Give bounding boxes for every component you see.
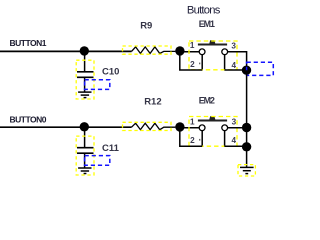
- right contact circle: [222, 49, 228, 55]
- pin name tick EM1: [199, 63, 200, 65]
- pin number 2 (EM2): [190, 136, 195, 145]
- highlight box EM1 (yellow dashed): [189, 41, 237, 70]
- label C11: [102, 143, 120, 154]
- svg-text:BUTTON0: BUTTON0: [10, 115, 47, 125]
- wire EM1 pin3 to right column: [228, 52, 247, 70]
- push button EM1: [198, 40, 228, 70]
- wire EM2 pin4 to right column: [224, 145, 246, 147]
- label EM2: [199, 96, 215, 106]
- wire C11 top lead: [84, 127, 86, 147]
- resistor R9 zigzag: [132, 47, 176, 54]
- svg-text:1: 1: [190, 41, 195, 50]
- svg-text:EM2: EM2: [199, 96, 215, 106]
- label R12: [144, 97, 161, 108]
- node junction dot EM2 pin4 / column: [242, 142, 251, 151]
- pin number 4 (EM2): [232, 136, 237, 145]
- svg-text:3: 3: [232, 118, 237, 127]
- wire EM2 pin2 return (dot-down-right): [180, 127, 202, 146]
- ground GND under C11: [78, 168, 91, 174]
- svg-text:C10: C10: [102, 67, 119, 78]
- node junction dot R9/EM1 pin1: [175, 46, 184, 55]
- pin number 2 (EM1): [190, 60, 195, 69]
- actuator bar: [198, 44, 227, 46]
- node junction dot EM1 pins3-4: [242, 66, 251, 75]
- highlight box GND bottom right (yellow dashed): [238, 165, 255, 176]
- capacitor C11: [77, 148, 94, 154]
- svg-text:C11: C11: [102, 143, 120, 154]
- svg-text:EM1: EM1: [199, 19, 215, 29]
- wire dot to EM2 pin 1: [180, 127, 200, 129]
- actuator bar: [198, 120, 227, 122]
- ground GND under C10: [78, 92, 91, 98]
- pin2 stub under left circle: [201, 55, 203, 71]
- wire C10 bottom lead to ground: [84, 78, 86, 92]
- node junction dot R12/EM2 pin1: [175, 122, 184, 131]
- push button EM2: [198, 116, 228, 147]
- wire EM1 pin2 return (dot-down-right): [180, 51, 202, 70]
- svg-text:2: 2: [190, 136, 195, 145]
- wire BUTTON0 net: left segment x0 to R12: [0, 126, 132, 128]
- highlight box C11+GND (yellow dashed): [76, 136, 94, 175]
- wire C11 bottom lead to ground: [84, 154, 86, 168]
- svg-text:R12: R12: [144, 97, 161, 108]
- wire EM2 pin3 to right column: [228, 127, 247, 129]
- ground GND bottom right: [240, 167, 254, 173]
- svg-text:BUTTON1: BUTTON1: [10, 38, 47, 48]
- selection box right of C11 (blue dashed): [85, 156, 110, 166]
- left contact circle: [199, 49, 205, 55]
- pin number 3 (EM1): [231, 41, 236, 50]
- wire BUTTON1 net: left segment x0 to R9: [0, 50, 132, 52]
- highlight box C10+GND (yellow dashed): [76, 60, 94, 99]
- node junction dot EM2 pin3 / column: [242, 123, 251, 132]
- svg-text:4: 4: [232, 136, 237, 145]
- wire right column to ground: [246, 128, 248, 167]
- svg-text:1: 1: [190, 117, 195, 126]
- right contact circle: [222, 125, 228, 131]
- label C10: [102, 67, 119, 78]
- svg-text:R9: R9: [140, 20, 152, 31]
- highlight box R12 (yellow dashed): [123, 122, 172, 130]
- wire C10 top lead: [84, 51, 86, 71]
- left contact circle: [199, 125, 205, 131]
- svg-text:Buttons: Buttons: [187, 4, 221, 16]
- pin4 stub under right circle: [224, 131, 226, 147]
- node junction dot BUTTON0/C11: [80, 122, 89, 131]
- actuator bump: [209, 40, 215, 44]
- selection box right of EM1 (blue dashed): [247, 62, 274, 75]
- pin number 4 (EM1): [232, 61, 237, 70]
- net label BUTTON0: [10, 115, 47, 125]
- pin number 1 (EM2): [190, 117, 195, 126]
- title Buttons: [187, 4, 221, 16]
- node junction dot BUTTON1/C10: [80, 46, 89, 55]
- actuator bump: [209, 116, 215, 120]
- svg-text:2: 2: [190, 60, 195, 69]
- label EM1: [199, 19, 215, 29]
- wire right column EM1 to EM2: [246, 70, 248, 127]
- pin number 1 (EM1): [190, 41, 195, 50]
- capacitor C10: [77, 72, 94, 78]
- resistor R12 zigzag: [132, 123, 176, 130]
- highlight box EM2 (yellow dashed): [189, 117, 237, 147]
- label R9: [140, 20, 152, 31]
- wire dot to EM1 pin 1: [180, 51, 200, 53]
- pin name tick EM2: [199, 139, 200, 141]
- highlight box R9 (yellow dashed): [123, 46, 172, 54]
- pin2 stub under left circle: [201, 131, 203, 147]
- svg-text:3: 3: [231, 41, 236, 50]
- pin4 stub under right circle: [224, 55, 226, 71]
- pin number 3 (EM2): [232, 118, 237, 127]
- net label BUTTON1: [10, 38, 47, 48]
- selection box right of C10 (blue dashed): [85, 80, 110, 90]
- svg-text:4: 4: [232, 61, 237, 70]
- wire EM1 pin4 to right column: [224, 69, 246, 71]
